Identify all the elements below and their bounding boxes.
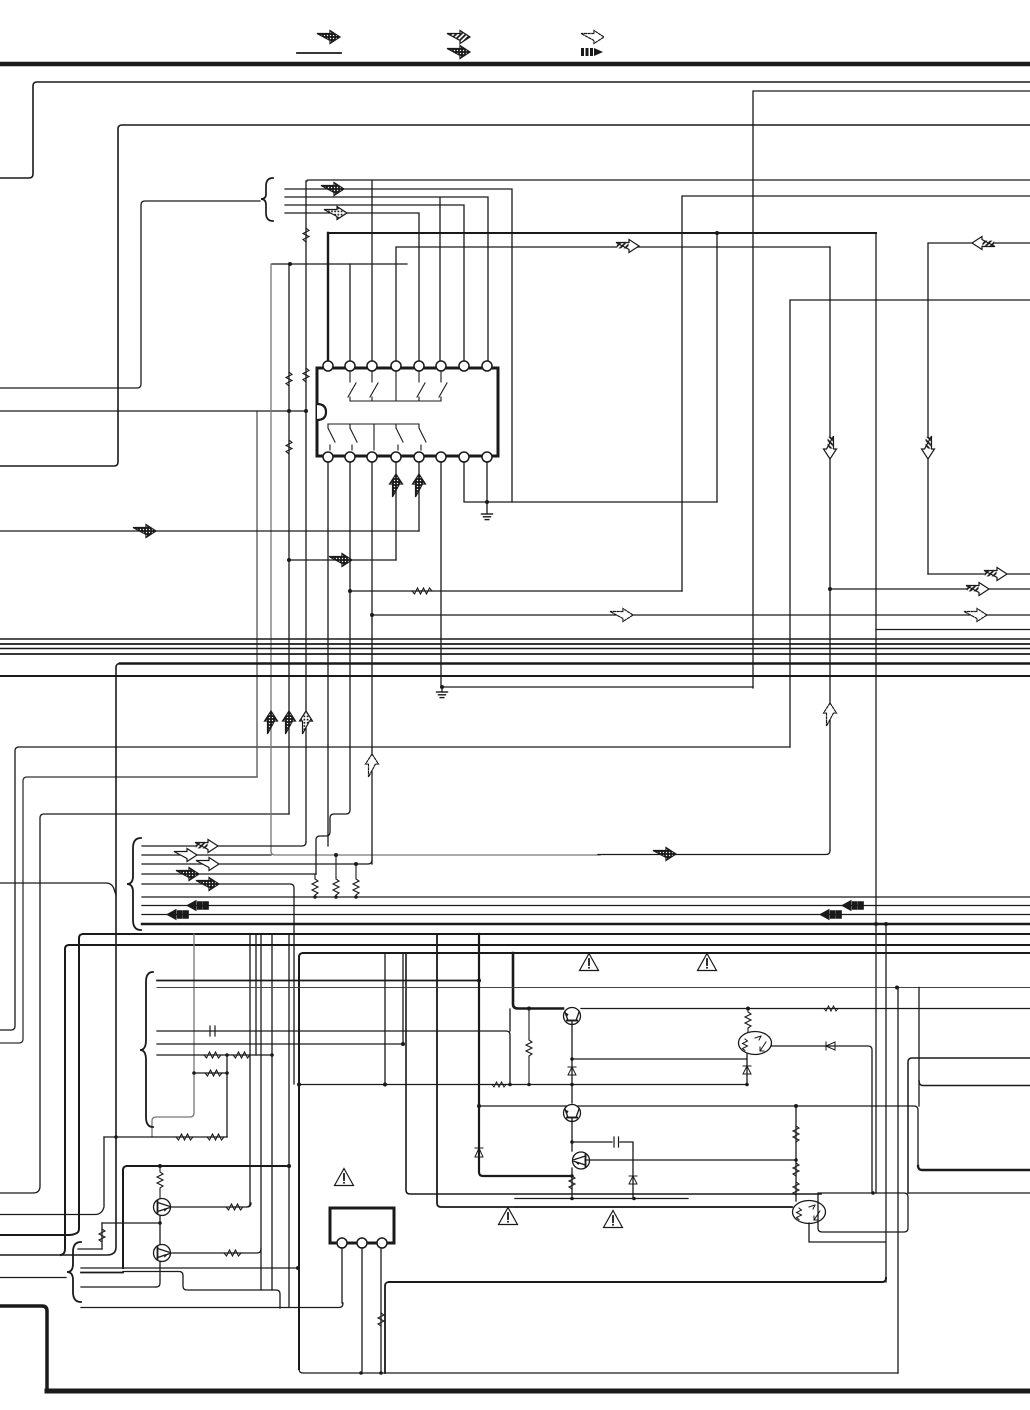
wire S1 [78, 1248, 102, 1250]
wire y591 [350, 590, 682, 592]
transistor Q2 [154, 1245, 171, 1262]
wire y630 [876, 629, 1030, 631]
node y1166 x160 [158, 1164, 162, 1168]
node B6 b [225, 1071, 229, 1075]
wire IC2 pin-c [380, 1248, 382, 1373]
border bottom-left corner [0, 1306, 47, 1391]
wire y233 thick [328, 232, 876, 234]
node y1166 x289 [287, 1164, 291, 1168]
resistor R1 [312, 874, 318, 897]
arrow L1 [195, 840, 218, 853]
wire Q1 collector right [170, 1203, 251, 1207]
resistor x796 a [793, 1126, 799, 1142]
resistor y1008 [824, 1006, 838, 1011]
node B1 x479 [477, 979, 481, 983]
wire pin6 drop [440, 462, 442, 687]
wire y246 [396, 247, 830, 361]
wire y1160 [585, 1159, 794, 1161]
box inner line [299, 953, 1030, 1369]
wire rail-3 to brace [0, 201, 260, 388]
node y264 [288, 262, 292, 266]
wire x372 top [371, 181, 373, 361]
bus line 3 [0, 648, 1030, 650]
wire y747 [0, 747, 790, 1030]
resistor x796 c [793, 1182, 799, 1195]
node y560 [287, 558, 291, 562]
wire y1084 [299, 1084, 747, 1086]
wire x717 [716, 233, 718, 502]
arrow y531 [133, 525, 156, 538]
node R bottoms [313, 895, 358, 899]
resistor y591 [412, 588, 432, 594]
wire S4 staircase [123, 1272, 280, 1309]
wire L4 [142, 873, 316, 875]
transistor Q4 [573, 1152, 590, 1169]
zener x747 [743, 1066, 751, 1074]
wire y574 [928, 573, 1030, 575]
arrow L5 [196, 878, 219, 891]
wire x876 long [875, 233, 877, 1193]
wire x830 upper [829, 247, 831, 850]
node y1008 x748 [746, 1007, 750, 1011]
legend arrow hatched [447, 31, 470, 44]
arrow L7 left b [841, 900, 863, 912]
wire y411 [0, 410, 306, 412]
node y1373 b [379, 1371, 383, 1375]
brace C [140, 972, 153, 1127]
box PC2 [818, 1193, 908, 1232]
wire y196 right [682, 196, 1030, 591]
wire T3 [285, 205, 464, 361]
resistor R3 [353, 864, 359, 897]
wire pin2 drop staircase [316, 462, 350, 874]
resistor on x306 upper [303, 228, 309, 382]
node x572 y1059 [570, 1057, 574, 1061]
wire B6 [194, 1072, 227, 1074]
arrow up x289 [283, 711, 296, 734]
arrow y615 b [964, 609, 987, 622]
node B6 a [192, 1071, 196, 1075]
resistor R2 [333, 855, 339, 897]
op-amp IC1 body [317, 368, 498, 456]
node L9 x876 [874, 922, 878, 926]
wire B5 [157, 1054, 272, 1056]
bus line 5 thick [120, 662, 1030, 665]
legend arrow line-signal [317, 31, 340, 44]
wire T4 [285, 213, 419, 361]
wire L3 [142, 860, 372, 864]
wire brace point [0, 1277, 66, 1279]
wire Q2 down [156, 1262, 160, 1287]
resistor Q1 top [157, 1166, 163, 1199]
resistor x748 [745, 1009, 751, 1033]
wire Q5 emitter [571, 1024, 573, 1085]
brace B [127, 838, 141, 930]
resistor x572 low [569, 1176, 575, 1189]
wire x257 gray [256, 412, 258, 777]
wire B2 [157, 987, 1030, 989]
wire L7 [142, 905, 1030, 907]
wire S2 [81, 1267, 298, 1269]
arrow L8 left b [819, 909, 841, 921]
node L9 x886 [884, 922, 888, 926]
wire y883 exit [0, 883, 116, 895]
wire y814 link [0, 814, 289, 1193]
arrow y589 [966, 583, 989, 596]
wire y1008 thin [581, 1008, 1030, 1010]
wire Q4 emitter [571, 1168, 573, 1198]
node R2 top [334, 853, 338, 857]
wire x289 [288, 264, 290, 814]
wire Q3 emitter [571, 1121, 573, 1151]
IC1 switch bank bottom [328, 424, 426, 450]
wire x513 thick [513, 953, 563, 1009]
warning triangle 4 [335, 1169, 354, 1186]
node y615 [370, 613, 374, 617]
wire y687 [442, 686, 753, 688]
arrow L3 white [196, 858, 219, 871]
drop x406 [406, 953, 821, 1194]
node y1008 x529 [527, 1007, 531, 1011]
wire y1207 long [515, 1206, 792, 1208]
arrow L2 white [174, 849, 197, 862]
wire x386 drop [385, 1282, 389, 1373]
wire y1059 [572, 1058, 747, 1060]
arrow y246 [616, 240, 639, 253]
node y1084 x299 [297, 1083, 301, 1087]
arrow L8 left a [166, 909, 188, 921]
wire B1 [157, 980, 479, 982]
arrow up pin4 [390, 474, 403, 497]
node x830 y589 [828, 587, 832, 591]
wire pin3 drop [371, 462, 373, 864]
node y1373 a [359, 1371, 363, 1375]
warning triangle 2 [698, 954, 717, 971]
brace T [261, 178, 273, 221]
IC1 notch [317, 404, 326, 420]
arrow y854 [653, 848, 676, 861]
warning triangle 1 [580, 954, 599, 971]
wire y560 [289, 559, 396, 561]
wire y1085 right [919, 1081, 1030, 1086]
border bottom thick [47, 1389, 1030, 1394]
arrow L7 left a [186, 900, 208, 912]
wire x102 resistor leg [101, 1223, 103, 1249]
node y591 [348, 589, 352, 593]
drop x437 [437, 934, 792, 1207]
wire x385 [384, 953, 386, 1085]
wire L9 thick [142, 923, 1030, 925]
zener x572 [568, 1067, 576, 1075]
arrow down x830 [824, 436, 837, 459]
arrow L4 [176, 868, 199, 881]
capacitor y1142 [614, 1137, 619, 1147]
arrow T4 [324, 207, 347, 220]
wire x116 from bus [0, 664, 120, 1256]
warning triangle 3 [604, 1211, 623, 1228]
wire x886 [885, 924, 887, 1282]
warning triangle 5 [499, 1208, 518, 1225]
wire IC2 pin-b [361, 1248, 363, 1373]
node B5 a [225, 1053, 229, 1057]
wire rail-1 [0, 82, 1030, 178]
wire pin4 drop [395, 462, 397, 560]
wire x919 upper [918, 988, 920, 1107]
box line A [0, 934, 1030, 1235]
node y1084 x529 [527, 1083, 531, 1087]
ground pin6 [437, 685, 448, 698]
wire y1142 cap [572, 1142, 633, 1198]
wire y1047 diode [771, 1046, 872, 1193]
thick y1170 [918, 1166, 1030, 1170]
wire PC1 down [746, 1054, 748, 1085]
legend arrow segmented [581, 48, 603, 56]
bus line 4 [0, 653, 1030, 655]
wire L5 [142, 884, 294, 1084]
wire y1166 dark [123, 1166, 289, 1268]
wire Q1 to Q2 [159, 1216, 161, 1245]
wire pin7 pin8 drop [464, 462, 717, 502]
zener x633 [629, 1176, 637, 1184]
wire y1058 right [908, 1058, 1030, 1193]
node y1084 x510 [508, 1083, 512, 1087]
box line B [61, 945, 1030, 1255]
arrow left y243 [972, 237, 995, 250]
wire y91 right [753, 91, 1030, 688]
resistor y1253 [224, 1250, 241, 1256]
wire y264 [272, 263, 407, 265]
photocoupler PC2 [793, 1201, 826, 1224]
resistor x102 [99, 1229, 105, 1242]
wire x194 gray [152, 934, 194, 1137]
bus line 2 [0, 643, 1030, 645]
wire y589 [830, 588, 1030, 590]
wire T2 [285, 197, 488, 361]
drop x272 [271, 934, 273, 1290]
wire pin5 drop [418, 462, 420, 531]
node B4 [401, 1042, 405, 1046]
node B8 x116 [114, 1135, 118, 1139]
wire B8 y1137 [104, 1136, 227, 1138]
node y1106 x796 [794, 1104, 798, 1108]
drop x289 [288, 934, 290, 1307]
wire B4 [157, 953, 403, 1044]
node x796 y1160 [794, 1158, 798, 1162]
wire y1223 [102, 1222, 160, 1224]
transistor Q1 [154, 1199, 171, 1216]
wire S5 [81, 1303, 343, 1308]
drop x261 [260, 934, 262, 1290]
diode y1047 [826, 1042, 835, 1050]
resistor x381 [378, 1313, 384, 1326]
wire y300 right [790, 300, 1030, 747]
arrow up x830 white [824, 703, 837, 726]
photocoupler PC1 [739, 1032, 772, 1055]
wire B3 [157, 1009, 510, 1084]
wire IC2 pin-a [341, 1248, 343, 1303]
resistor y1207 [226, 1204, 243, 1210]
arrow T1 [321, 183, 344, 196]
wire y1214 exit [0, 1137, 104, 1215]
wire L1 [142, 842, 306, 846]
node y411 a [287, 409, 291, 413]
node box top [871, 1191, 875, 1195]
wire y777 link [0, 777, 257, 1043]
resistor B8b [207, 1134, 224, 1140]
bus line 6 [0, 675, 1030, 677]
wire x227 [226, 1055, 228, 1137]
wire y854 arrowed [598, 851, 830, 855]
node y1084 x747 [745, 1083, 749, 1087]
wire PC2 bottom [809, 1223, 885, 1242]
op-amp IC2 body [330, 1208, 394, 1243]
wire L2 [142, 854, 271, 856]
arrow down x928 [922, 436, 935, 459]
resistor x529 [526, 1009, 532, 1085]
resistor x289 pair [286, 372, 292, 454]
wire y1198 [515, 1198, 688, 1200]
arrow y560 [329, 554, 352, 567]
legend underline [297, 52, 341, 54]
wire y1282 [389, 1278, 886, 1282]
wire y531 [0, 530, 419, 532]
drop x250 [247, 934, 250, 1207]
node y411 b [304, 409, 308, 413]
wire box top right [908, 1192, 1030, 1194]
wire x271 gray [271, 264, 600, 855]
wire x350 top [349, 264, 351, 361]
resistor y1084 [492, 1082, 506, 1087]
wire y243 from right [928, 243, 1030, 574]
resistor B6 [205, 1070, 222, 1076]
arrow up x271 [265, 711, 278, 734]
node x479 y1105 [477, 1104, 481, 1108]
wire y1106 [479, 1106, 918, 1166]
IC1 pins bottom [323, 452, 492, 462]
legend arrow gridfill [447, 46, 470, 59]
arrow up x372 white [366, 754, 379, 777]
wire y1373 [299, 1369, 898, 1373]
wire rail y180 [307, 180, 1030, 181]
transistor Q5 [564, 1008, 581, 1025]
node x160 y1223 [158, 1221, 162, 1225]
arrow up x306 [300, 711, 313, 734]
IC1 switch bank top [348, 372, 447, 401]
arrow y615 a [610, 609, 633, 622]
node y1084 x572 [570, 1083, 574, 1087]
arrow up pin5 [413, 474, 426, 497]
wire T1 [285, 189, 512, 502]
IC1 pins top [323, 361, 492, 371]
wire pin1 drop [327, 462, 329, 846]
node B2 x897 [895, 986, 899, 990]
brace S [67, 1242, 81, 1302]
border top thick [0, 62, 1030, 67]
wire Q3 collector [571, 1085, 573, 1104]
wire x306 [305, 181, 307, 842]
bus line 1 [0, 638, 1030, 640]
transistor Q3 [564, 1105, 581, 1122]
node x572 y1176 [570, 1174, 574, 1178]
ground IC1 [482, 500, 493, 520]
zener x479 [475, 1148, 483, 1157]
node R3 top [354, 862, 358, 866]
wire S3 [81, 1286, 156, 1288]
capacitor B3 [210, 1026, 215, 1036]
drop x256 [255, 934, 257, 1055]
node y1084 x385 [383, 1083, 387, 1087]
resistor B5b [233, 1052, 250, 1058]
wire x479 thick [479, 934, 572, 1176]
resistor B5a [204, 1052, 221, 1058]
wire S2b dark [81, 1272, 123, 1274]
resistor B8a [176, 1134, 193, 1140]
resistor x796 b [793, 1163, 799, 1176]
node B5 b [270, 1053, 274, 1057]
wire Q2 collector right [170, 1249, 261, 1253]
wire rail-2 [0, 125, 1030, 466]
wire x898 [897, 988, 899, 1374]
wire y615 [372, 614, 1030, 616]
arrow y574 [984, 568, 1007, 581]
wire L8 [142, 914, 1030, 916]
node S2 x298 [296, 1266, 300, 1270]
wire x796 chain [795, 1106, 797, 1201]
node y233 x717 [715, 231, 719, 235]
wire L6 [142, 896, 1030, 898]
IC2 pins [337, 1238, 387, 1248]
wire x328 thick drop [327, 233, 329, 361]
legend arrow dotted-outline [581, 31, 604, 44]
